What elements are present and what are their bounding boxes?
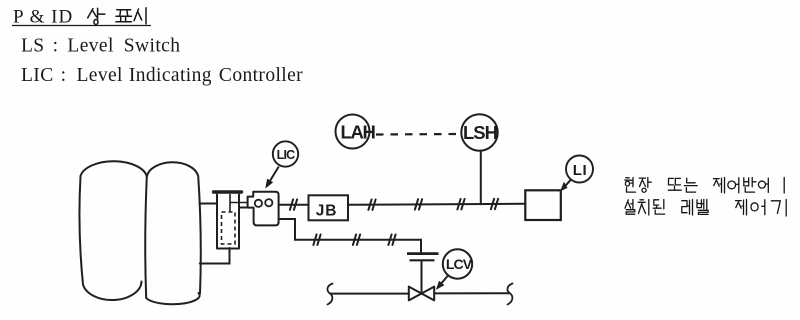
svg-text:JB: JB [316, 203, 337, 220]
process pipe left segment [331, 293, 409, 295]
wire: LSH drop to signal line [480, 151, 482, 204]
wire: tank upper tap to chamber [200, 203, 218, 205]
dashed link LAH to LSH [376, 133, 456, 136]
hash marks on wire (switch-JB) [290, 199, 297, 209]
svg-text:LCV: LCV [446, 256, 473, 272]
pipe break mark right [507, 284, 512, 305]
svg-text:LIC: LIC [277, 148, 296, 162]
svg-text:LI: LI [573, 162, 588, 179]
level switch body [248, 192, 279, 226]
junction box JB [309, 195, 349, 220]
svg-text:LAH: LAH [340, 122, 375, 143]
valve actuator lower bar [410, 259, 435, 261]
svg-text:P & ID: P & ID [13, 7, 73, 28]
wire: switch to control valve (branch) [279, 219, 421, 253]
title underline [12, 25, 151, 27]
valve body (bowtie) [409, 287, 434, 301]
title korean text "상 표시" [88, 8, 146, 25]
chamber top flange [214, 190, 242, 193]
annotation korean line 1 "현장 또는 제어반에" [625, 178, 784, 194]
displacer float (dashed) [222, 212, 236, 244]
arrow: LI balloon to LI box [565, 180, 571, 187]
wire: tank lower tap to chamber bottom [200, 248, 230, 264]
pipe break mark left [327, 284, 332, 305]
level chamber (external cage) [217, 195, 239, 249]
displacer hanger rod [230, 194, 248, 212]
process pipe right segment [434, 292, 509, 294]
instrument balloon LAH [336, 115, 370, 149]
wire: chamber to switch stubs [239, 207, 248, 209]
valve stem [421, 261, 423, 293]
annotation korean line 2 "설치된 레벨 제어기" [625, 200, 786, 217]
wire: switch to JB [279, 204, 309, 206]
instrument balloon LI [566, 156, 593, 183]
tank left cylinder [79, 161, 146, 300]
svg-text:LIC:LevelIndicatingController: LIC:LevelIndicatingController [21, 65, 303, 86]
instrument balloon LIC [273, 141, 298, 166]
level switch terminal circles [255, 200, 262, 207]
local indicator box LI [525, 190, 561, 220]
arrow: LCV balloon to valve [441, 276, 448, 285]
wire: JB to LI box [348, 204, 526, 205]
tank right cylinder [145, 162, 201, 304]
hash marks on valve branch [313, 235, 395, 245]
arrow: LIC balloon to switch body [268, 167, 279, 184]
valve actuator top bar [407, 252, 439, 255]
instrument balloon LCV [443, 249, 472, 278]
svg-text:LSH: LSH [463, 122, 498, 143]
hash marks on wire (JB-LI) [368, 199, 498, 210]
instrument balloon LSH [461, 114, 497, 150]
